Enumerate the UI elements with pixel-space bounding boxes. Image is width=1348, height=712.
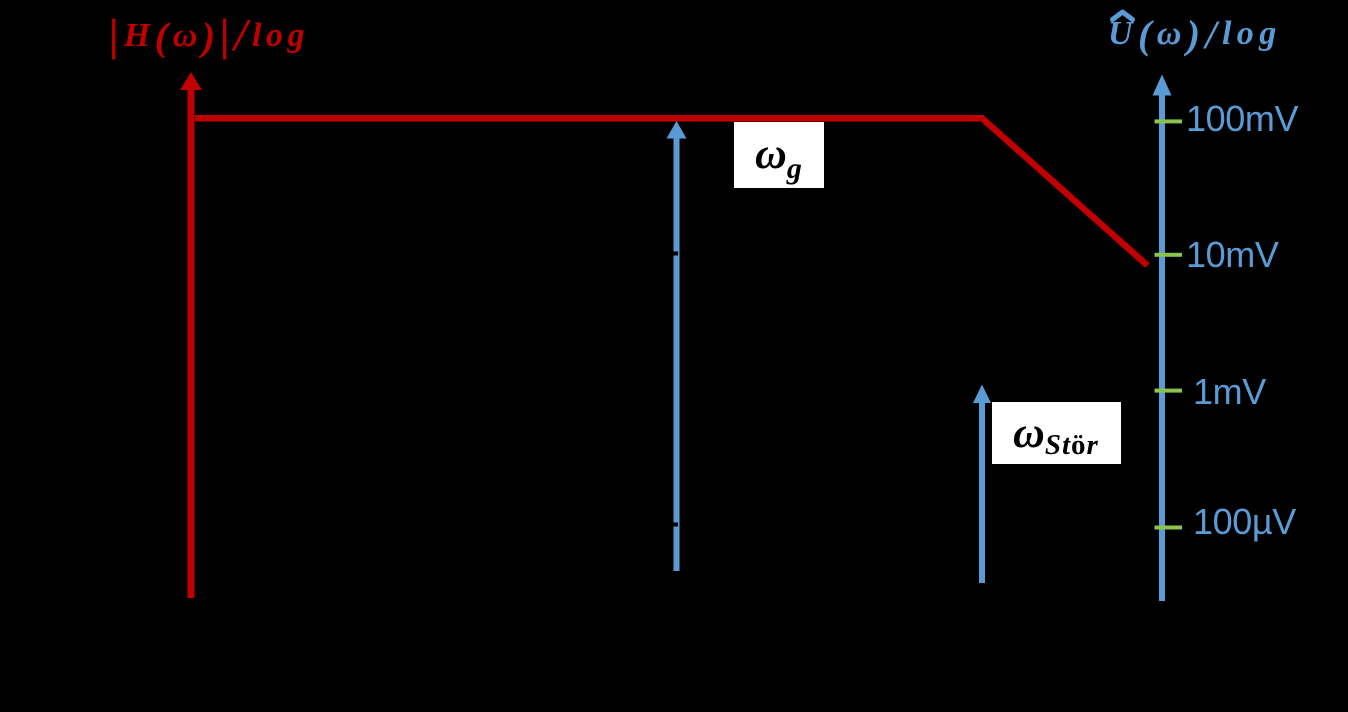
label 100uV	[1193, 504, 1296, 540]
label 1mV	[1193, 374, 1266, 410]
red frequency response curve	[195, 118, 1148, 265]
green tick 100mV	[1155, 119, 1183, 123]
green tick 100uV	[1155, 526, 1183, 530]
red H axis title	[109, 12, 309, 58]
hat accent over U in blue title	[1113, 12, 1133, 20]
green tick 10mV	[1155, 253, 1183, 257]
red vertical axis |H|	[180, 72, 202, 598]
blue vertical axis U	[1153, 75, 1172, 602]
blue U axis title	[1108, 15, 1282, 55]
omega_Stoer label box	[992, 402, 1121, 464]
omega_g label box	[734, 122, 824, 188]
omega_Stoer label text	[1013, 411, 1099, 460]
label 10mV	[1186, 237, 1278, 273]
black notch 1 on omega_g arrow	[671, 252, 678, 256]
label 100mV	[1186, 101, 1298, 137]
omega_g label text	[755, 132, 802, 184]
blue omega_Stoer arrow	[973, 385, 991, 584]
blue omega_g arrow	[667, 121, 687, 571]
green tick 1mV	[1155, 389, 1183, 393]
black notch 2 on omega_g arrow	[671, 523, 678, 527]
